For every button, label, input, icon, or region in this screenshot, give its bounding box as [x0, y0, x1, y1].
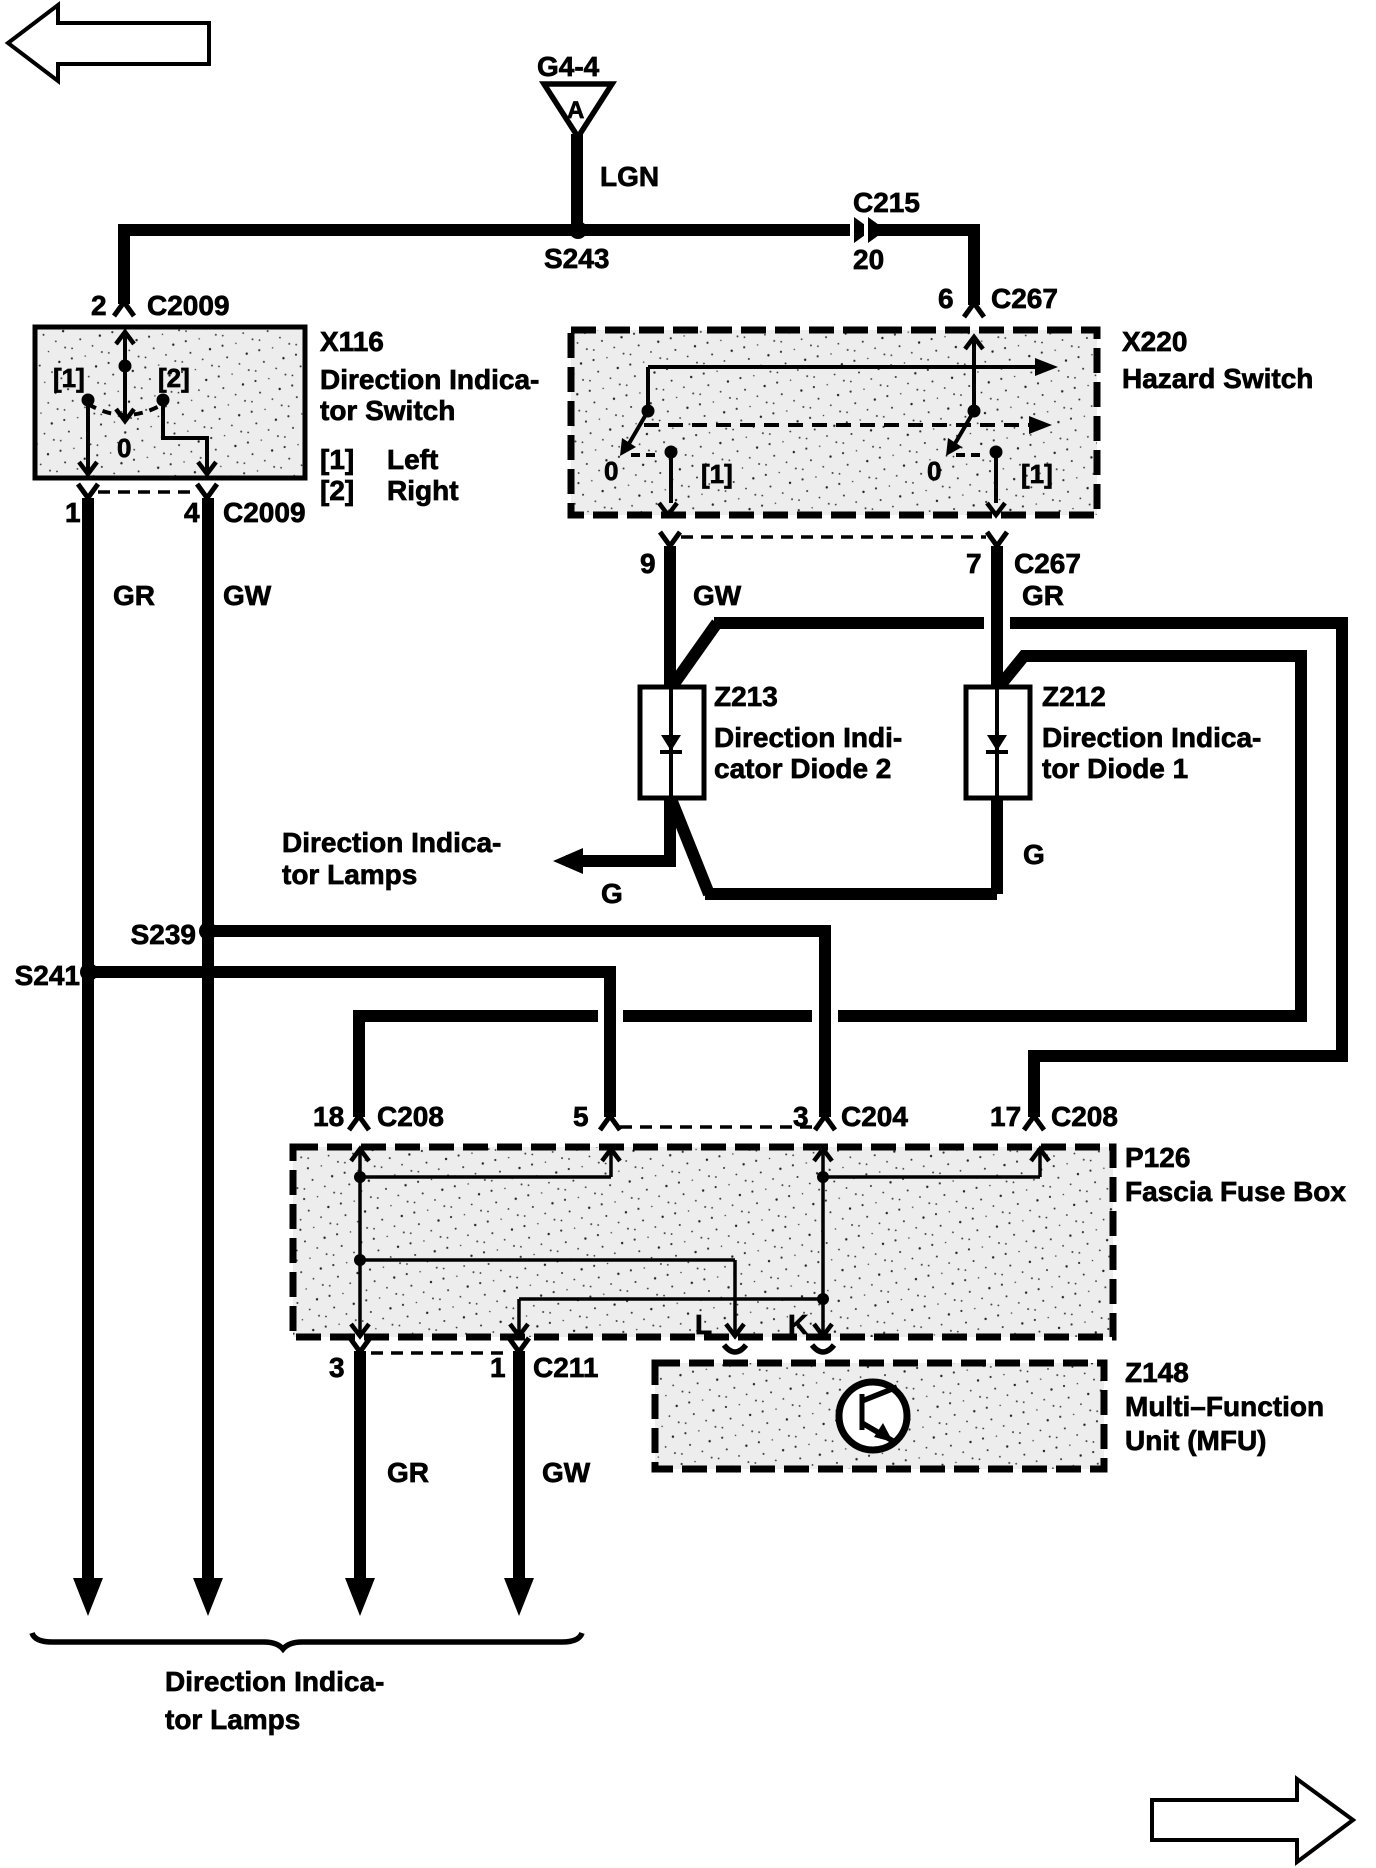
svg-text:tor Switch: tor Switch: [320, 395, 455, 426]
svg-text:S241: S241: [15, 960, 80, 991]
svg-text:Direction Indica-: Direction Indica-: [282, 827, 501, 858]
svg-text:1: 1: [65, 497, 81, 528]
svg-text:LGN: LGN: [600, 161, 659, 192]
svg-text:K: K: [788, 1309, 808, 1340]
svg-text:S239: S239: [131, 919, 196, 950]
svg-text:A: A: [567, 97, 584, 124]
svg-text:tor Diode 1: tor Diode 1: [1042, 753, 1188, 784]
svg-text:Hazard Switch: Hazard Switch: [1122, 363, 1313, 394]
svg-text:[2]: [2]: [158, 363, 190, 393]
svg-text:18: 18: [313, 1101, 344, 1132]
svg-text:P126: P126: [1125, 1142, 1190, 1173]
svg-text:C215: C215: [853, 187, 920, 218]
svg-text:Right: Right: [387, 475, 459, 506]
svg-text:Z212: Z212: [1042, 681, 1106, 712]
svg-text:tor Lamps: tor Lamps: [282, 859, 417, 890]
svg-text:Unit (MFU): Unit (MFU): [1125, 1425, 1267, 1456]
svg-text:GW: GW: [693, 580, 742, 611]
svg-text:6: 6: [938, 283, 954, 314]
svg-text:Z148: Z148: [1125, 1357, 1189, 1388]
svg-text:Direction Indica-: Direction Indica-: [320, 364, 539, 395]
svg-text:C208: C208: [377, 1101, 444, 1132]
svg-text:C208: C208: [1051, 1101, 1118, 1132]
svg-text:20: 20: [853, 244, 884, 275]
svg-text:G: G: [601, 878, 623, 909]
svg-text:Multi–Function: Multi–Function: [1125, 1391, 1324, 1422]
svg-text:Direction Indi-: Direction Indi-: [714, 722, 902, 753]
svg-text:Left: Left: [387, 444, 438, 475]
svg-text:S243: S243: [544, 243, 609, 274]
svg-text:GR: GR: [113, 580, 155, 611]
svg-text:5: 5: [573, 1101, 589, 1132]
svg-text:GR: GR: [387, 1457, 429, 1488]
svg-text:X116: X116: [320, 326, 384, 357]
svg-text:[1]: [1]: [701, 459, 733, 489]
svg-text:C267: C267: [991, 283, 1058, 314]
svg-text:[2]: [2]: [320, 475, 354, 506]
svg-text:9: 9: [640, 548, 656, 579]
svg-text:2: 2: [91, 290, 107, 321]
svg-text:G: G: [1023, 839, 1045, 870]
svg-text:0: 0: [117, 433, 131, 463]
svg-text:Direction Indica-: Direction Indica-: [1042, 722, 1261, 753]
svg-text:7: 7: [966, 548, 982, 579]
svg-text:[1]: [1]: [1021, 459, 1053, 489]
svg-text:Fascia Fuse Box: Fascia Fuse Box: [1125, 1176, 1346, 1207]
svg-text:4: 4: [184, 497, 200, 528]
svg-text:Z213: Z213: [714, 681, 778, 712]
svg-text:C204: C204: [841, 1101, 908, 1132]
svg-text:0: 0: [927, 456, 941, 486]
svg-text:Direction Indica-: Direction Indica-: [165, 1666, 384, 1697]
svg-text:G4-4: G4-4: [537, 51, 600, 82]
svg-text:3: 3: [329, 1352, 345, 1383]
svg-text:X220: X220: [1122, 326, 1187, 357]
svg-text:[1]: [1]: [320, 444, 354, 475]
svg-text:0: 0: [604, 456, 618, 486]
svg-text:L: L: [695, 1309, 712, 1340]
svg-text:GW: GW: [542, 1457, 591, 1488]
svg-text:GR: GR: [1022, 580, 1064, 611]
svg-text:3: 3: [793, 1101, 809, 1132]
svg-text:tor Lamps: tor Lamps: [165, 1704, 300, 1735]
svg-text:C211: C211: [533, 1352, 598, 1383]
svg-text:C267: C267: [1014, 548, 1081, 579]
svg-text:[1]: [1]: [53, 363, 85, 393]
svg-text:C2009: C2009: [223, 497, 306, 528]
svg-text:cator Diode 2: cator Diode 2: [714, 753, 891, 784]
svg-text:GW: GW: [223, 580, 272, 611]
svg-text:17: 17: [990, 1101, 1021, 1132]
svg-text:1: 1: [490, 1352, 506, 1383]
svg-text:C2009: C2009: [147, 290, 230, 321]
